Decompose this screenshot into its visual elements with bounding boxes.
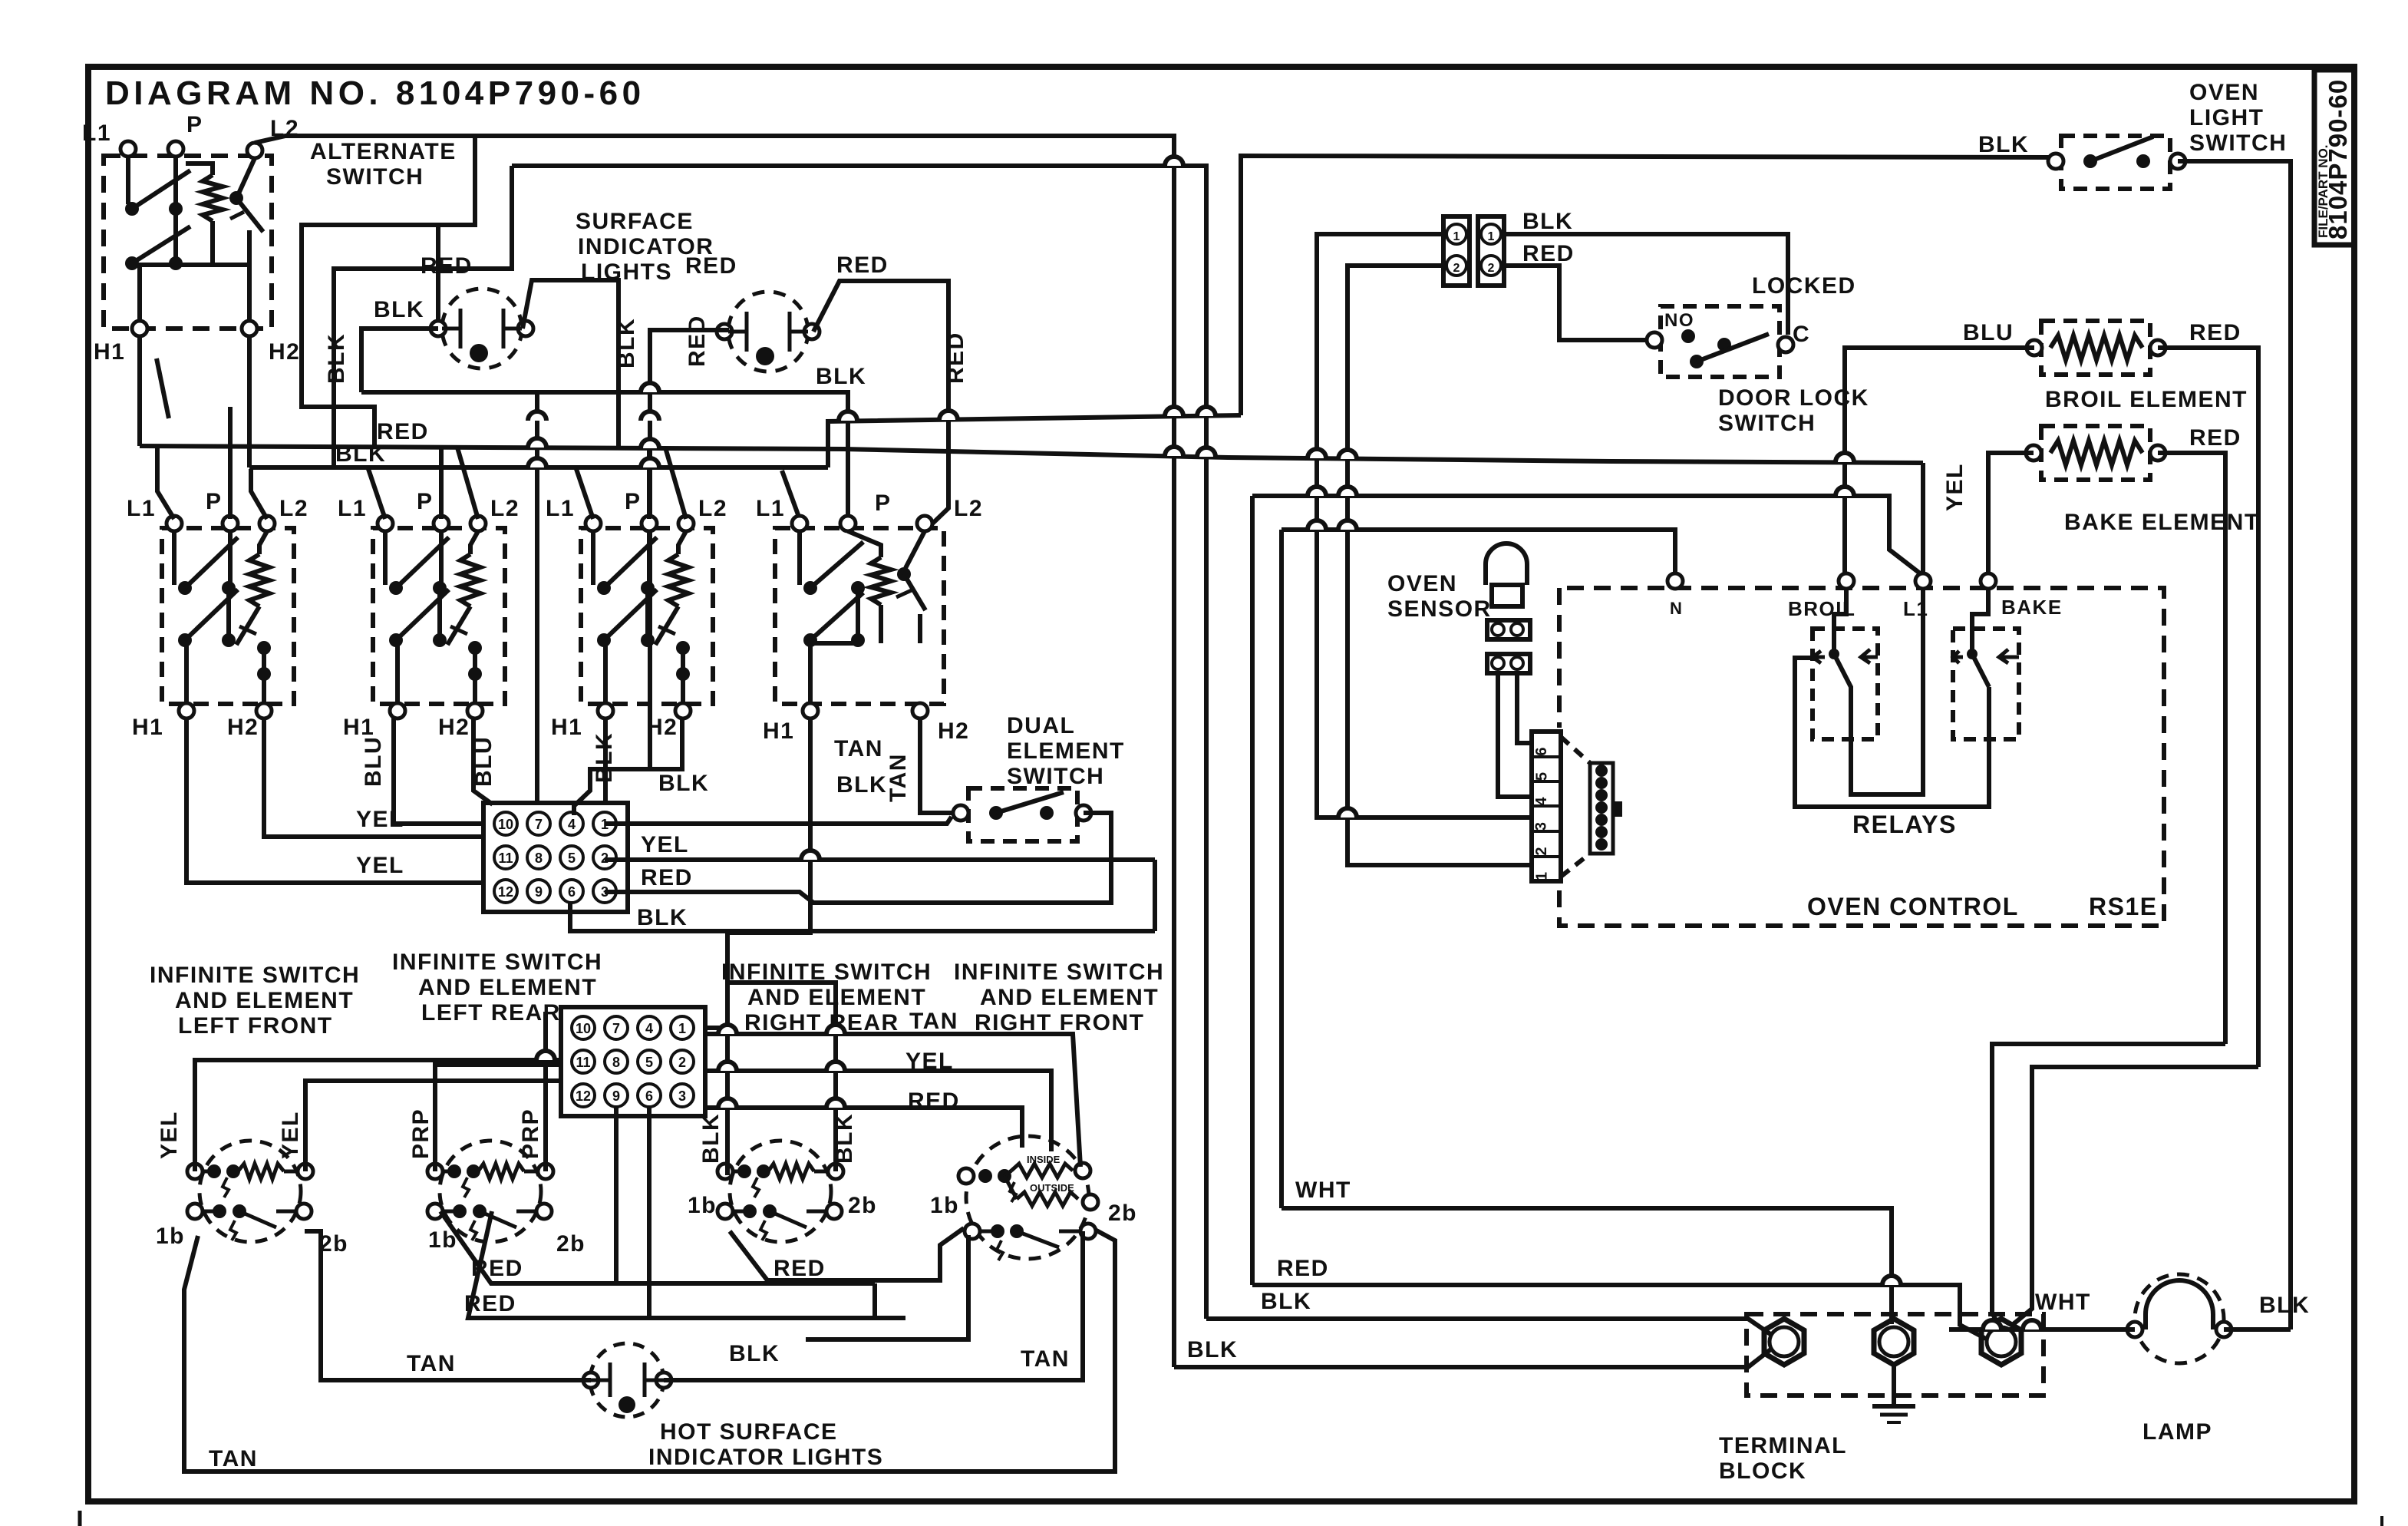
svg-text:1: 1 [1453, 230, 1460, 243]
svg-text:RED: RED [908, 1088, 960, 1114]
svg-text:DUAL: DUAL [1007, 713, 1075, 738]
svg-text:RED: RED [836, 253, 889, 278]
svg-text:BLU: BLU [1963, 320, 2014, 345]
conn1 left YEL wires [264, 718, 483, 837]
part number box top right [2314, 70, 2354, 245]
svg-text:BLK: BLK [2259, 1293, 2310, 1318]
wire conn2 pin6 drop [647, 1107, 651, 1318]
switch blade lower [132, 226, 190, 263]
svg-text:RED: RED [774, 1256, 826, 1281]
resistor bake element [2050, 441, 2142, 465]
surface indicator light 2 [728, 292, 808, 372]
svg-text:H1: H1 [94, 339, 125, 365]
svg-text:BROIL ELEMENT: BROIL ELEMENT [2045, 387, 2248, 412]
svg-text:P: P [875, 490, 892, 516]
terminal nut 3 [1981, 1319, 2021, 1365]
resistor in alternate switch [203, 175, 223, 221]
wire from L2 up to trunk T1 [255, 136, 475, 143]
wire conn2 pin9 drop [614, 1107, 618, 1283]
pin header block [1590, 763, 1613, 854]
svg-text:L2: L2 [698, 496, 727, 521]
terminal nut 1 [1764, 1319, 1804, 1365]
connector block 2 (12-pin) [561, 1007, 705, 1116]
wire RED to door lock NO [1504, 266, 1648, 340]
svg-text:9: 9 [535, 884, 543, 900]
infinite switch left rear [440, 1141, 541, 1242]
svg-text:SWITCH: SWITCH [1007, 764, 1104, 789]
svg-text:BLK: BLK [832, 1113, 857, 1164]
svg-text:LEFT REAR: LEFT REAR [421, 1000, 561, 1026]
svg-text:BLK: BLK [614, 318, 639, 368]
svg-text:1: 1 [678, 1021, 686, 1036]
svg-text:P: P [417, 489, 434, 514]
svg-text:BLK: BLK [1978, 132, 2029, 157]
oven control dashed box [1557, 588, 1562, 728]
wire V4 [1317, 234, 1532, 817]
wire LF 2b to hot light [305, 1231, 591, 1380]
svg-text:L2: L2 [954, 496, 983, 521]
svg-text:3: 3 [678, 1088, 686, 1104]
svg-text:2: 2 [678, 1055, 686, 1070]
LR PRP risers [435, 1065, 561, 1171]
BLK trunk [249, 465, 828, 470]
svg-text:1: 1 [1534, 872, 1551, 880]
svg-text:2b: 2b [1108, 1201, 1137, 1226]
wire BLU to BROIL terminal [1845, 348, 2034, 574]
resistor in box4 [871, 557, 891, 605]
light1 RED lead riser [523, 280, 618, 446]
svg-text:L2: L2 [279, 496, 308, 521]
light1 BLK lead [361, 329, 438, 392]
svg-text:2b: 2b [319, 1231, 348, 1257]
relay blade bake [1972, 654, 1989, 687]
svg-text:1b: 1b [688, 1193, 717, 1218]
svg-text:11: 11 [498, 851, 513, 866]
wire trunk T2 / vertical V2 [512, 166, 1206, 1319]
sensor wire to pin6 [1517, 673, 1532, 743]
light2 RED lead riser [813, 281, 948, 528]
svg-text:OVEN: OVEN [2189, 80, 2259, 105]
svg-text:8: 8 [612, 1055, 620, 1070]
svg-text:P: P [206, 489, 223, 514]
resistor broil element [2050, 335, 2142, 360]
svg-text:2: 2 [1488, 262, 1495, 275]
svg-text:H2: H2 [438, 715, 470, 740]
box4 H1 drop [727, 718, 810, 1029]
wire RED bake to V2900 [2158, 453, 2225, 1044]
svg-text:4: 4 [1533, 797, 1550, 806]
wire RED broil to V2943 [2158, 348, 2258, 1067]
svg-text:BAKE: BAKE [2001, 596, 2063, 619]
svg-text:BLK: BLK [1261, 1289, 1311, 1314]
svg-text:RED: RED [1277, 1256, 1329, 1281]
svg-text:H1: H1 [132, 715, 163, 740]
light2 BLK lead [650, 330, 729, 769]
svg-text:TAN: TAN [209, 1446, 258, 1471]
relay bake internals [1972, 588, 1988, 649]
connector block 1 (12-pin) [483, 803, 628, 912]
svg-text:5: 5 [568, 851, 576, 866]
wedge to pin header [1561, 737, 1590, 763]
pointer line under H1 [157, 358, 169, 418]
sensor wire to pin4 [1498, 673, 1532, 797]
terminal H1 alternate switch [132, 321, 147, 336]
svg-text:RED: RED [2189, 320, 2241, 345]
svg-text:LEFT FRONT: LEFT FRONT [178, 1013, 333, 1039]
svg-text:INDICATOR LIGHTS: INDICATOR LIGHTS [648, 1445, 883, 1470]
svg-text:SENSOR: SENSOR [1387, 596, 1492, 622]
box1 feeds [157, 446, 174, 519]
oven light switch [2061, 136, 2170, 189]
svg-text:L1: L1 [82, 121, 111, 146]
LF YEL risers [195, 1060, 561, 1171]
wire H1 drop to RED trunk [137, 336, 142, 446]
page edge tick marks [78, 1511, 82, 1526]
svg-text:ELEMENT: ELEMENT [1007, 738, 1125, 764]
svg-text:H1: H1 [551, 715, 582, 740]
terminal block [1747, 1314, 2044, 1396]
surface switch right rear (box3) [581, 528, 713, 704]
box2 feeds [368, 469, 385, 519]
svg-text:RED: RED [2189, 425, 2241, 451]
terminal L1 [1915, 573, 1931, 589]
svg-text:ALTERNATE: ALTERNATE [310, 139, 457, 164]
svg-text:SURFACE: SURFACE [576, 209, 694, 234]
svg-text:5: 5 [1534, 772, 1551, 781]
svg-text:10: 10 [576, 1021, 591, 1036]
svg-text:OVEN CONTROL: OVEN CONTROL [1807, 893, 2019, 920]
svg-text:6: 6 [1533, 747, 1550, 755]
wire trunk T1 / vertical V1 [475, 136, 1174, 1367]
wire LF 1b TAN bottom [184, 1230, 1115, 1471]
svg-text:7: 7 [612, 1021, 620, 1036]
svg-text:BLK: BLK [335, 441, 386, 467]
relay bake return wire [1795, 658, 1989, 807]
wire BLK from conn1 pin6 [570, 903, 1155, 931]
svg-text:7: 7 [535, 817, 543, 832]
svg-text:TAN: TAN [1021, 1346, 1070, 1372]
svg-text:INFINITE SWITCH: INFINITE SWITCH [392, 950, 602, 975]
terminal N [1667, 573, 1683, 589]
terminal BROIL [1839, 573, 1854, 589]
svg-text:L1: L1 [546, 496, 575, 521]
svg-text:2: 2 [1453, 262, 1460, 275]
svg-text:BAKE ELEMENT: BAKE ELEMENT [2064, 510, 2260, 535]
relay bake box [1953, 629, 2019, 739]
wire RF 1b drop [806, 1235, 968, 1339]
svg-text:H2: H2 [938, 718, 969, 744]
relay blade broil [1834, 654, 1851, 689]
infinite switch left front [200, 1141, 301, 1242]
svg-text:BLK: BLK [324, 333, 349, 384]
svg-text:5: 5 [645, 1055, 653, 1070]
bake element [2041, 426, 2150, 480]
svg-text:BLK: BLK [1187, 1337, 1238, 1362]
svg-text:BLK: BLK [816, 364, 866, 389]
box3 H1 BLK drop [603, 718, 608, 803]
svg-text:L1: L1 [756, 496, 785, 521]
svg-text:BLK: BLK [729, 1341, 780, 1366]
svg-text:OVEN: OVEN [1387, 571, 1457, 596]
terminal L1 alternate switch [120, 141, 136, 157]
svg-text:RED: RED [685, 253, 737, 279]
RR BLK risers [705, 1026, 727, 1030]
svg-text:BLK: BLK [698, 1113, 724, 1164]
svg-text:C: C [1793, 322, 1810, 347]
svg-text:PRP: PRP [518, 1108, 543, 1159]
wire light1 left terminal riser [436, 225, 440, 321]
wire BLK to left nut [1206, 1319, 1773, 1336]
svg-text:BLU: BLU [471, 736, 496, 787]
box4 L1 feed [782, 471, 800, 519]
surface indicator light 1 [442, 289, 522, 368]
dual element switch [968, 788, 1077, 841]
svg-text:8104P790-60: 8104P790-60 [2324, 79, 2352, 239]
svg-text:H1: H1 [763, 718, 794, 744]
wire BLK bus tap to pin7 [535, 392, 539, 803]
wire RED below RR [730, 1228, 964, 1280]
wire trunk T4 [828, 415, 1241, 467]
wire trunk to L1 [1851, 463, 1923, 794]
switch blade upper [132, 170, 190, 209]
svg-text:LOCKED: LOCKED [1752, 273, 1856, 299]
alternate switch internals [126, 157, 130, 204]
svg-text:1: 1 [1488, 230, 1495, 243]
terminal L2 alternate switch [247, 143, 262, 158]
svg-text:HOT SURFACE: HOT SURFACE [660, 1419, 838, 1445]
terminal nut 2 (neutral) [1874, 1319, 1914, 1365]
wire TAN to RF [705, 1034, 1080, 1167]
svg-text:YEL: YEL [356, 807, 404, 832]
lamp WHT wire [1949, 1327, 2135, 1332]
svg-text:12: 12 [498, 884, 513, 900]
svg-text:1b: 1b [930, 1193, 959, 1218]
svg-text:SWITCH: SWITCH [1718, 411, 1816, 436]
svg-text:RED: RED [684, 315, 710, 367]
svg-text:BLU: BLU [361, 736, 386, 787]
wire YEL from conn1 pin2 [605, 857, 1155, 862]
infinite switch right front (dual element) [966, 1136, 1089, 1259]
H2 box4 TAN drop to dual element switch [920, 718, 955, 813]
svg-text:INFINITE SWITCH: INFINITE SWITCH [954, 960, 1164, 985]
wire RED to RF [705, 1108, 1022, 1148]
wire BLK to door lock C [1504, 234, 1788, 335]
svg-text:L1: L1 [127, 496, 156, 521]
blade door lock [1697, 334, 1769, 362]
terminal H2 alternate switch [242, 321, 257, 336]
wire RED from conn1 pin3 to dual switch [605, 813, 1111, 903]
svg-text:YEL: YEL [641, 832, 689, 857]
svg-text:P: P [186, 112, 203, 137]
svg-text:BLK: BLK [592, 732, 617, 783]
svg-text:RED: RED [421, 253, 473, 279]
relay broil internals [1834, 588, 1846, 649]
svg-text:WHT: WHT [1295, 1178, 1351, 1203]
svg-text:6: 6 [568, 884, 576, 900]
svg-text:OUTSIDE: OUTSIDE [1030, 1182, 1074, 1194]
RED trunk [140, 446, 1923, 463]
wire V2943 down to right nut [2011, 1067, 2258, 1326]
svg-text:YEL: YEL [1942, 463, 1968, 511]
svg-text:1b: 1b [156, 1224, 185, 1249]
svg-text:6: 6 [645, 1088, 653, 1104]
svg-text:TERMINAL: TERMINAL [1719, 1433, 1847, 1458]
wire V7 [1347, 266, 1532, 865]
svg-text:L2: L2 [490, 496, 520, 521]
svg-text:3: 3 [1533, 822, 1550, 831]
wire YEL to RF [705, 1071, 1051, 1151]
svg-text:4: 4 [645, 1021, 653, 1036]
svg-text:H2: H2 [269, 339, 300, 365]
terminal BAKE [1981, 573, 1996, 589]
box3 feeds [576, 469, 593, 519]
svg-text:YEL: YEL [157, 1111, 182, 1159]
svg-text:2: 2 [1533, 847, 1550, 855]
sensor connector 2 [1487, 654, 1530, 673]
svg-text:RED: RED [641, 865, 693, 890]
svg-text:TAN: TAN [886, 753, 911, 802]
2-pin connector pair [1443, 216, 1470, 286]
svg-text:BLK: BLK [374, 297, 424, 322]
blade L2 [236, 198, 263, 232]
L2 lead [239, 158, 255, 193]
svg-text:BLOCK: BLOCK [1719, 1458, 1806, 1484]
wire RED LR 2 [468, 1211, 905, 1318]
svg-text:RED: RED [464, 1291, 516, 1316]
svg-text:BLK: BLK [658, 771, 709, 796]
wire YEL to BAKE terminal [1988, 453, 2034, 574]
ground symbol [1892, 1364, 1896, 1406]
door lock switch [1661, 306, 1780, 377]
svg-text:SWITCH: SWITCH [2189, 130, 2287, 156]
svg-text:11: 11 [576, 1055, 590, 1070]
box2 drops BLU BLU [394, 718, 483, 824]
svg-text:2b: 2b [848, 1193, 877, 1218]
svg-text:YEL: YEL [278, 1111, 303, 1159]
svg-text:TAN: TAN [834, 736, 883, 761]
svg-text:YEL: YEL [905, 1049, 954, 1074]
lamp BLK wire [2224, 1327, 2291, 1332]
svg-text:AND ELEMENT: AND ELEMENT [175, 988, 354, 1013]
blade oven light switch [2090, 137, 2153, 161]
svg-text:LIGHT: LIGHT [2189, 105, 2265, 130]
svg-text:H2: H2 [227, 715, 259, 740]
svg-text:BLK: BLK [637, 905, 688, 930]
wire TAN from conn1 pin1 to dual switch [605, 817, 952, 824]
alternate switch box [104, 156, 272, 329]
svg-text:NO: NO [1664, 310, 1694, 331]
svg-text:INSIDE: INSIDE [1027, 1154, 1061, 1165]
svg-text:4: 4 [568, 817, 576, 832]
broil element [2041, 321, 2150, 375]
wire T2 feed loop [334, 166, 512, 467]
sensor connector 1 [1487, 620, 1530, 639]
svg-text:BLK: BLK [1522, 209, 1573, 234]
svg-text:RS1E: RS1E [2089, 893, 2158, 920]
hot surface indicator light [590, 1343, 664, 1417]
svg-text:10: 10 [498, 817, 513, 832]
svg-text:DIAGRAM NO. 8104P790-60: DIAGRAM NO. 8104P790-60 [105, 74, 645, 112]
svg-text:AND ELEMENT: AND ELEMENT [418, 975, 597, 1000]
svg-text:BLK: BLK [836, 772, 887, 798]
BLK wire y511 to box4 P [361, 392, 848, 519]
svg-text:INFINITE SWITCH: INFINITE SWITCH [150, 963, 360, 988]
svg-text:RED: RED [943, 332, 968, 384]
box3 H2 + light2 BLK bus [574, 718, 682, 815]
wire RED to right nut [1252, 1285, 1986, 1339]
svg-text:L1: L1 [338, 496, 367, 521]
sensor bulb [1483, 564, 1488, 585]
wire hot light BLK to riser 1411 [664, 1231, 1083, 1380]
dual element switch right lead [1084, 813, 1111, 903]
6-pin strip [1532, 732, 1561, 881]
svg-text:P: P [625, 489, 642, 514]
surface switch left rear (box2) [373, 528, 505, 704]
surface switch right front (box4) [775, 528, 944, 704]
svg-text:YEL: YEL [356, 853, 404, 878]
svg-text:SWITCH: SWITCH [326, 164, 424, 190]
svg-text:N: N [1670, 599, 1683, 618]
infinite switch right rear [730, 1141, 831, 1242]
svg-text:2b: 2b [556, 1231, 586, 1257]
surface switch left front (box1) [162, 528, 294, 704]
wire RED LR [440, 1211, 875, 1283]
svg-text:9: 9 [612, 1088, 620, 1104]
wire V2900 down to right nut [1992, 1044, 2225, 1325]
svg-text:L1: L1 [1903, 597, 1928, 620]
svg-text:AND ELEMENT: AND ELEMENT [980, 985, 1159, 1010]
svg-text:PRP: PRP [408, 1108, 434, 1159]
wire T1 feed loop [302, 136, 475, 446]
wire trunk V6 to N [1282, 530, 1675, 574]
wire trunk V5 to L1 diagonal [1252, 496, 1923, 576]
svg-text:TAN: TAN [407, 1351, 456, 1376]
svg-text:WHT: WHT [2035, 1290, 2091, 1315]
blade dual element switch [996, 792, 1064, 813]
svg-text:TAN: TAN [909, 1009, 958, 1034]
wire T3 BLK to oven light switch [1241, 156, 2056, 415]
svg-text:12: 12 [576, 1088, 591, 1104]
terminal P alternate switch [168, 141, 183, 157]
svg-text:RED: RED [1522, 241, 1575, 266]
wire WHT to middle nut [1282, 1208, 1892, 1324]
relay broil box [1813, 629, 1878, 739]
lamp [2135, 1274, 2224, 1363]
wire crossing hops [528, 438, 546, 448]
wire H2 drop to BLK trunk [247, 336, 252, 467]
svg-text:RELAYS: RELAYS [1852, 811, 1957, 838]
svg-text:LAMP: LAMP [2142, 1419, 2212, 1445]
svg-text:H2: H2 [646, 715, 678, 740]
wire oven light to V2985 [2178, 161, 2291, 1329]
svg-text:8: 8 [535, 851, 543, 866]
wire BLK lower to left nut [1174, 1348, 1773, 1367]
